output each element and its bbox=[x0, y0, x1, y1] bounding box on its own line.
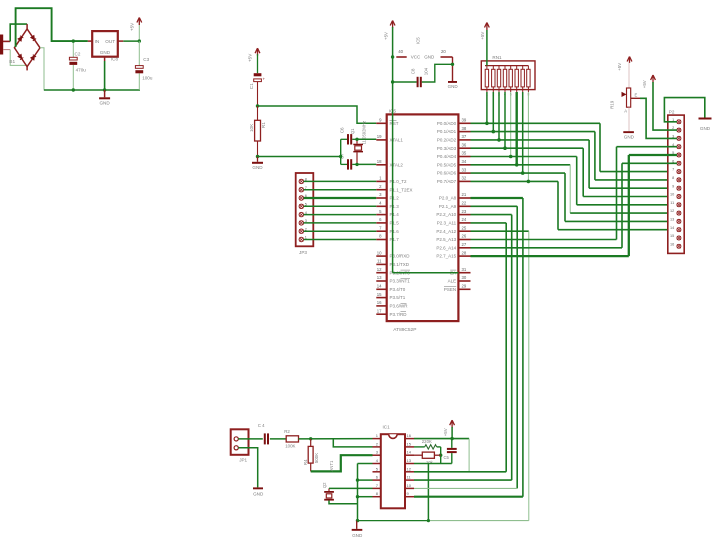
svg-text:GND: GND bbox=[100, 50, 111, 55]
svg-text:GND: GND bbox=[424, 55, 435, 60]
svg-text:P2.0_A8: P2.0_A8 bbox=[439, 196, 457, 201]
wire GND net to crystal caps bbox=[258, 156, 341, 158]
wire P2 pin1 to GND bbox=[664, 98, 704, 122]
supply +5V arrow LCD VCC bbox=[642, 75, 656, 88]
resistor R1 10K bbox=[249, 106, 266, 157]
svg-text:P3.5/T1: P3.5/T1 bbox=[390, 295, 406, 300]
svg-text:IN: IN bbox=[95, 39, 100, 44]
svg-text:+5V: +5V bbox=[248, 53, 253, 62]
crystal Q2 4MHz bbox=[322, 482, 334, 501]
wires P2.5 P2.6 P2.7 to LCD control bbox=[471, 147, 629, 256]
svg-text:GND: GND bbox=[99, 101, 110, 106]
wire XTAL2 pin18 bbox=[357, 163, 376, 165]
svg-text:31: 31 bbox=[462, 267, 467, 272]
svg-text:OUT: OUT bbox=[105, 39, 115, 44]
wires P0 staircase verticals bbox=[558, 123, 600, 229]
ground GND LCD pin1 bbox=[699, 118, 712, 132]
svg-text:32: 32 bbox=[462, 176, 467, 181]
svg-text:10k: 10k bbox=[426, 460, 434, 465]
resistor R2 100K bbox=[284, 429, 298, 448]
svg-text:P3.4/T0: P3.4/T0 bbox=[390, 287, 406, 292]
svg-text:C 4: C 4 bbox=[258, 423, 265, 428]
svg-text:15: 15 bbox=[407, 441, 412, 446]
capacitor C5 bypass bbox=[444, 439, 457, 464]
svg-text:IC5: IC5 bbox=[416, 37, 421, 44]
capacitor C2 470u bbox=[69, 39, 86, 91]
svg-text:GND: GND bbox=[700, 126, 711, 131]
svg-text:JP1: JP1 bbox=[239, 457, 247, 462]
svg-text:P0.2/AD2: P0.2/AD2 bbox=[437, 138, 457, 143]
svg-text:23: 23 bbox=[462, 209, 467, 214]
wire crystal top to IC1 pin7 bbox=[329, 487, 373, 489]
svg-text:P2.3_A11: P2.3_A11 bbox=[437, 221, 457, 226]
wire JP1 pin1 to C4 bbox=[238, 438, 262, 440]
svg-text:12: 12 bbox=[670, 209, 674, 213]
svg-text:RST: RST bbox=[390, 121, 399, 126]
node RST junction bbox=[256, 104, 259, 107]
svg-text:14: 14 bbox=[407, 450, 412, 455]
svg-text:Q2: Q2 bbox=[322, 482, 327, 488]
svg-text:P3.3/INT1: P3.3/INT1 bbox=[390, 279, 411, 284]
supply +5V arrow VCC net bbox=[384, 21, 395, 41]
svg-text:GND: GND bbox=[624, 135, 635, 140]
supply +5V arrow power bbox=[130, 18, 142, 43]
crystal Q1 11.0592MHz bbox=[350, 121, 366, 166]
svg-text:28: 28 bbox=[462, 250, 467, 255]
connector X1 AC input bbox=[0, 35, 10, 55]
wire wiper to P2 pin3 bbox=[640, 98, 677, 138]
wire AC2 to bridge bottom bbox=[10, 50, 27, 66]
svg-text:XTAL2: XTAL2 bbox=[390, 162, 404, 167]
svg-text:24: 24 bbox=[462, 217, 467, 222]
IC5 right pin names bbox=[436, 121, 456, 292]
svg-text:+5V: +5V bbox=[642, 80, 647, 88]
svg-text:15: 15 bbox=[377, 292, 382, 297]
svg-text:10: 10 bbox=[407, 483, 412, 488]
wires IC1 pins 12 11 10 9 to P2 port columns bbox=[414, 472, 523, 497]
bridge rectifier B1 bbox=[9, 24, 40, 70]
svg-text:B1: B1 bbox=[9, 59, 15, 65]
svg-text:7: 7 bbox=[672, 168, 674, 172]
resistor R6 220K zigzag bbox=[414, 439, 441, 449]
svg-text:12: 12 bbox=[407, 466, 412, 471]
svg-text:P2.1_A9: P2.1_A9 bbox=[439, 204, 457, 209]
wire C4 to R2 bbox=[270, 438, 286, 440]
supply +5V arrow IC1 VCC bbox=[443, 420, 455, 438]
svg-text:16: 16 bbox=[377, 300, 382, 305]
svg-text:11.0592MHz: 11.0592MHz bbox=[362, 121, 367, 144]
svg-text:36: 36 bbox=[462, 142, 467, 147]
svg-text:P2.5_A13: P2.5_A13 bbox=[436, 237, 456, 242]
capacitor C3 100u bbox=[135, 41, 152, 90]
wires LCD control rows 4 5 6 bbox=[617, 147, 678, 164]
svg-text:GND: GND bbox=[352, 533, 363, 538]
svg-text:21: 21 bbox=[462, 192, 467, 197]
svg-text:P0.5/AD5: P0.5/AD5 bbox=[437, 162, 457, 167]
wires RN1 pull-up columns to P0 bbox=[485, 92, 530, 183]
svg-text:GND: GND bbox=[252, 165, 263, 170]
svg-text:R2: R2 bbox=[284, 429, 290, 434]
svg-text:+5V: +5V bbox=[384, 32, 389, 40]
svg-text:16: 16 bbox=[670, 242, 674, 246]
wire R2 to IC1 pin1 bbox=[299, 437, 373, 440]
svg-text:+5V: +5V bbox=[617, 63, 622, 71]
svg-text:10: 10 bbox=[670, 193, 674, 197]
svg-text:10: 10 bbox=[377, 250, 382, 255]
svg-text:+5V: +5V bbox=[480, 32, 485, 40]
svg-text:11: 11 bbox=[670, 201, 674, 205]
svg-text:14: 14 bbox=[670, 226, 674, 230]
wire IC1 pin13 long ground route bbox=[357, 464, 529, 523]
svg-text:16: 16 bbox=[407, 433, 412, 438]
svg-text:R1: R1 bbox=[261, 122, 266, 128]
svg-text:P1.6: P1.6 bbox=[390, 229, 400, 234]
svg-text:P1.4: P1.4 bbox=[390, 212, 400, 217]
svg-text:38: 38 bbox=[462, 126, 467, 131]
connector JP1 bbox=[231, 429, 249, 462]
wire R4 to IC1 pin3 bbox=[311, 455, 373, 471]
IC5 left pin names bbox=[390, 121, 413, 317]
svg-text:P0.3/AD3: P0.3/AD3 bbox=[437, 146, 457, 151]
wire VCC net vertical and EA bbox=[391, 27, 459, 273]
svg-text:R4: R4 bbox=[303, 459, 308, 465]
svg-text:C3: C3 bbox=[143, 57, 149, 62]
svg-text:ANT1: ANT1 bbox=[329, 460, 334, 471]
svg-text:C6: C6 bbox=[340, 127, 345, 133]
svg-text:26: 26 bbox=[462, 234, 467, 239]
svg-text:P1.2: P1.2 bbox=[390, 196, 400, 201]
ground rail wire bbox=[44, 89, 140, 91]
svg-text:29: 29 bbox=[462, 284, 467, 289]
svg-text:+5V: +5V bbox=[443, 428, 448, 436]
connector JP3 bbox=[296, 173, 314, 255]
svg-text:C1: C1 bbox=[249, 83, 254, 89]
svg-text:30: 30 bbox=[462, 275, 467, 280]
svg-text:33: 33 bbox=[462, 167, 467, 172]
svg-text:E: E bbox=[635, 92, 638, 97]
svg-text:22: 22 bbox=[462, 201, 467, 206]
svg-text:P0.1/AD1: P0.1/AD1 bbox=[437, 129, 457, 134]
svg-text:VCC: VCC bbox=[411, 55, 421, 60]
svg-text:P2.7_A15: P2.7_A15 bbox=[436, 254, 456, 259]
svg-text:17: 17 bbox=[377, 308, 382, 313]
svg-text:18: 18 bbox=[377, 159, 382, 164]
svg-text:R19: R19 bbox=[610, 100, 615, 109]
svg-text:P3.7/RD: P3.7/RD bbox=[390, 312, 408, 317]
wire branch to IC1 pin2 bbox=[333, 439, 372, 447]
wires LCD rows into P2 bbox=[0, 0, 1, 1]
svg-text:15: 15 bbox=[670, 234, 674, 238]
svg-text:P3.6/WR: P3.6/WR bbox=[390, 304, 409, 309]
svg-text:P1.7: P1.7 bbox=[390, 237, 400, 242]
svg-text:GND: GND bbox=[448, 84, 459, 89]
svg-text:19: 19 bbox=[377, 134, 382, 139]
svg-text:104: 104 bbox=[423, 67, 428, 75]
svg-text:13: 13 bbox=[407, 458, 412, 463]
IC1 pin stubs and numbers bbox=[373, 433, 415, 497]
svg-text:RN1: RN1 bbox=[492, 55, 502, 60]
svg-text:P2: P2 bbox=[669, 109, 675, 114]
supply +5V arrow RN1 bbox=[480, 23, 489, 66]
svg-text:P0.6/AD6: P0.6/AD6 bbox=[437, 171, 457, 176]
ground GND JP1 bbox=[253, 487, 264, 496]
svg-text:P1.5: P1.5 bbox=[390, 221, 400, 226]
wire IC1 pin4 pin5 pin8 ground leg bbox=[356, 464, 373, 523]
svg-text:P2.2_A10: P2.2_A10 bbox=[436, 212, 456, 217]
wire AC1 to bridge top bbox=[10, 24, 27, 41]
supply +5V arrow reset bbox=[248, 48, 260, 73]
wires P2.0-P2.4 to bottom columns bbox=[471, 198, 529, 521]
svg-text:AT89C52P: AT89C52P bbox=[393, 327, 416, 333]
svg-text:11: 11 bbox=[377, 259, 382, 264]
voltage regulator IC8 7805 bbox=[88, 31, 140, 90]
svg-text:13: 13 bbox=[670, 218, 674, 222]
svg-text:P0.4/AD4: P0.4/AD4 bbox=[437, 154, 457, 159]
trimmer R19 contrast bbox=[610, 57, 641, 114]
wire IC1 pin16 VCC row bbox=[414, 437, 469, 472]
svg-text:P2.4_A12: P2.4_A12 bbox=[436, 229, 456, 234]
svg-text:34: 34 bbox=[462, 159, 467, 164]
capacitor C1 bbox=[249, 73, 266, 106]
capacitor C4 bbox=[258, 423, 269, 445]
ground GND IC5 power bbox=[448, 57, 459, 89]
ground GND IC1 bbox=[352, 521, 363, 538]
capacitor C8 104 bbox=[393, 64, 453, 87]
svg-text:+: + bbox=[263, 77, 266, 82]
resistor R3 bbox=[414, 452, 441, 465]
svg-text:C8: C8 bbox=[410, 68, 415, 74]
wire XTAL1 pin19 bbox=[357, 138, 376, 140]
svg-text:P1.3: P1.3 bbox=[390, 204, 400, 209]
svg-text:C5: C5 bbox=[444, 455, 450, 460]
IC5 left pin stubs and numbers bbox=[376, 118, 386, 315]
wire RST net to pin9 bbox=[258, 106, 377, 123]
svg-text:8: 8 bbox=[672, 176, 674, 180]
svg-text:500K: 500K bbox=[314, 453, 319, 463]
svg-text:14: 14 bbox=[377, 284, 382, 289]
svg-text:P0.0/AD0: P0.0/AD0 bbox=[437, 121, 457, 126]
svg-text:13: 13 bbox=[377, 275, 382, 280]
svg-text:A: A bbox=[624, 108, 627, 113]
ground GND reset bbox=[252, 155, 263, 170]
svg-text:Q1: Q1 bbox=[350, 128, 355, 134]
svg-text:27: 27 bbox=[462, 242, 467, 247]
svg-text:100K: 100K bbox=[285, 443, 295, 448]
connector P2 LCD bbox=[668, 109, 684, 253]
svg-text:220K: 220K bbox=[422, 439, 432, 444]
svg-text:ALE: ALE bbox=[448, 279, 457, 284]
svg-text:XTAL1: XTAL1 bbox=[390, 138, 404, 143]
svg-text:P0.7/AD7: P0.7/AD7 bbox=[437, 179, 457, 184]
wire crystal bottom leg bbox=[329, 501, 358, 504]
wire crystal cap left leg bbox=[339, 139, 342, 164]
microcontroller IC5 AT89C52 body bbox=[387, 109, 459, 333]
wires P0.0-P0.7 rows bbox=[471, 123, 601, 181]
resistor network RN1 bbox=[481, 55, 535, 97]
svg-text:+5V: +5V bbox=[130, 22, 135, 31]
svg-text:9: 9 bbox=[672, 184, 674, 188]
wire bridge minus to ground rail bbox=[40, 48, 140, 90]
wires LCD data rows D0-D7 bbox=[558, 172, 677, 230]
svg-text:JP3: JP3 bbox=[299, 250, 307, 255]
wires JP3 to P1.0-P1.7 bbox=[304, 181, 377, 239]
svg-text:IC8: IC8 bbox=[111, 57, 119, 62]
resistor R4 500K bbox=[303, 439, 319, 472]
svg-text:IC1: IC1 bbox=[383, 425, 391, 430]
svg-text:40: 40 bbox=[398, 49, 403, 54]
svg-text:P2.6_A14: P2.6_A14 bbox=[436, 245, 456, 250]
capacitor C7 bbox=[340, 153, 357, 170]
capacitor C6 bbox=[340, 127, 357, 145]
svg-text:100u: 100u bbox=[142, 75, 153, 80]
svg-text:37: 37 bbox=[462, 134, 467, 139]
wire bridge plus to regulator bbox=[16, 8, 88, 47]
IC5 right pin stubs and numbers bbox=[458, 118, 470, 290]
svg-text:GND: GND bbox=[253, 491, 264, 496]
svg-text:12: 12 bbox=[377, 267, 382, 272]
svg-text:C2: C2 bbox=[75, 51, 81, 56]
wire 220K to node X bbox=[439, 447, 442, 464]
svg-text:PSEN: PSEN bbox=[444, 287, 456, 292]
IC5 power gate VCC GND pins bbox=[396, 37, 452, 60]
svg-text:39: 39 bbox=[462, 118, 467, 123]
svg-text:10K: 10K bbox=[249, 123, 254, 132]
svg-text:470u: 470u bbox=[76, 68, 87, 73]
svg-text:25: 25 bbox=[462, 225, 467, 230]
wire +5V to P2 pin2 bbox=[653, 82, 677, 130]
ground GND regulator bbox=[99, 88, 110, 105]
oscillator IC1 body DIP16 bbox=[381, 425, 405, 509]
wire JP1 pin2 to GND bbox=[238, 448, 257, 488]
svg-text:20: 20 bbox=[441, 49, 446, 54]
svg-text:35: 35 bbox=[462, 151, 467, 156]
ground GND trimmer bbox=[623, 107, 634, 139]
